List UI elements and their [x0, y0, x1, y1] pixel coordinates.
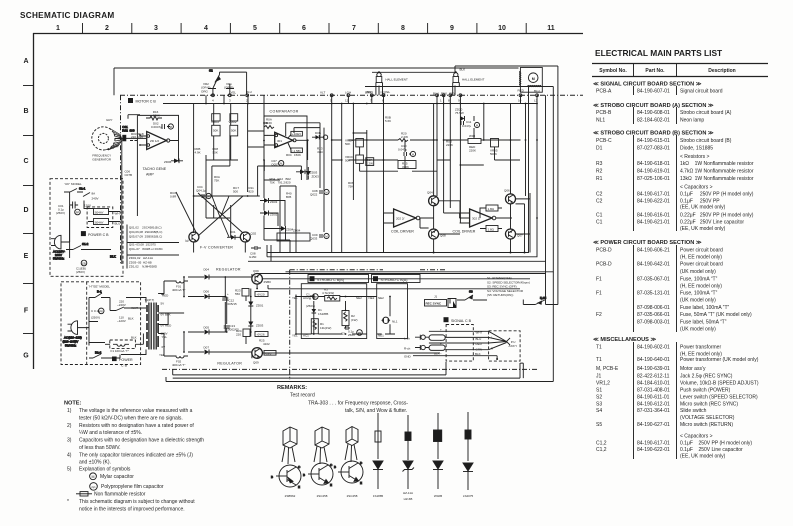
resistor cluster R04 R1 B02: [270, 177, 292, 185]
svg-text:1kΩ 1W Nonflammable resist: 1kΩ 1W Nonflammable resistor: [680, 161, 754, 167]
svg-text:BLK: BLK: [434, 352, 440, 356]
svg-text:220: 220: [236, 333, 241, 337]
svg-text:1S1885: 1S1885: [373, 494, 384, 498]
svg-text:0.1μF 250V PP (H model onl: 0.1μF 250V PP (H model only): [680, 441, 752, 447]
svg-text:The only capacitor toleranc: The only capacitor tolerances indicated …: [79, 452, 193, 458]
svg-text:(S5: RETURN(ON)): (S5: RETURN(ON)): [487, 293, 513, 297]
svg-text:Part No.: Part No.: [645, 68, 665, 74]
svg-text:W03: W03: [469, 134, 476, 138]
svg-text:0.1μF 250V Line capacitor: 0.1μF 250V Line capacitor: [680, 447, 743, 453]
svg-text:Fuse label, 100mA “T”: Fuse label, 100mA “T”: [680, 305, 730, 311]
svg-text:ZD1,02 NJM4558D: ZD1,02 NJM4558D: [129, 265, 158, 269]
frequency generator FG: [92, 118, 122, 162]
svg-text:ASS’Y: ASS’Y: [509, 344, 518, 348]
svg-text:(g): (g): [185, 239, 189, 243]
svg-text:82-184-602-01: 82-184-602-01: [637, 118, 670, 124]
svg-text:0.1μF 250V PP (H model on: 0.1μF 250V PP (H model only): [680, 192, 754, 198]
svg-text:F2: F2: [596, 312, 602, 318]
trimmer plate 1: [212, 114, 220, 121]
wire coil driver cross links: [384, 204, 525, 253]
svg-text:84-190-622-01: 84-190-622-01: [637, 199, 670, 205]
svg-text:75.5W: 75.5W: [455, 111, 464, 115]
svg-text:¼W and a tolerance of ±5%.: ¼W and a tolerance of ±5%.: [79, 430, 142, 436]
UK model dashed box: [50, 179, 123, 277]
svg-text:Push switch (POWER): Push switch (POWER): [680, 388, 731, 394]
resistor RC7 500: [233, 186, 239, 194]
svg-text:R02: R02: [122, 128, 128, 132]
svg-text:ZD 1/2: ZD 1/2: [150, 139, 159, 143]
svg-text:LS2075: LS2075: [463, 494, 474, 498]
svg-text:87-031-364-01: 87-031-364-01: [637, 408, 670, 414]
svg-text:Mylar capacitor: Mylar capacitor: [100, 474, 134, 480]
svg-text:E: E: [360, 481, 362, 485]
capacitor C3 strobo: [341, 326, 362, 337]
wire mid verticals (motor board): [194, 104, 526, 253]
VR1 speed adjust: [224, 82, 237, 95]
regulator label bottom: [217, 361, 242, 365]
power board boundary bottom (dash-dot): [162, 368, 537, 370]
svg-text:84-190-608-01: 84-190-608-01: [637, 110, 670, 116]
svg-text:87-035-067-01: 87-035-067-01: [637, 277, 670, 283]
svg-text:400mA“T”: 400mA“T”: [172, 363, 185, 367]
svg-text:Power transformer (UK model on: Power transformer (UK model only): [680, 357, 759, 363]
svg-text:400mA“T”: 400mA“T”: [172, 288, 185, 292]
svg-text:M, PCB-E: M, PCB-E: [596, 366, 619, 372]
svg-text:~240V: ~240V: [117, 303, 126, 307]
svg-text:2): 2): [67, 423, 72, 429]
resistor R11 820: [249, 186, 255, 194]
VR2 speed adjust: [201, 82, 216, 95]
svg-text:Fuse, 50mA “T” (UK model only): Fuse, 50mA “T” (UK model only): [680, 312, 752, 318]
svg-text:C1: C1: [306, 293, 310, 297]
svg-text:Description: Description: [708, 68, 736, 74]
svg-text:D06: D06: [204, 290, 210, 294]
strobo C B(A) label: [372, 275, 421, 283]
svg-text:POWER C B: POWER C B: [88, 233, 109, 237]
svg-text:This schematic diagram is: This schematic diagram is subject to cha…: [79, 499, 195, 505]
svg-text:5.6K: 5.6K: [385, 119, 391, 123]
resistor R0A 75K: [214, 175, 220, 183]
svg-text:84-190-617-01: 84-190-617-01: [637, 192, 670, 198]
svg-text:F1: F1: [596, 277, 602, 283]
zener ZD04 box mid: [277, 229, 310, 242]
parts labels Q0A C07B: [125, 170, 133, 178]
svg-text:BLK: BLK: [128, 317, 134, 321]
svg-text:notice in the interests of imp: notice in the interests of improved perf…: [79, 506, 185, 512]
svg-text:(250V): (250V): [76, 270, 85, 274]
svg-text:M: M: [412, 153, 414, 157]
svg-text:50/60Hz: 50/60Hz: [53, 257, 65, 261]
zener ZD03c: [306, 167, 319, 180]
svg-text:84-190-602-01: 84-190-602-01: [637, 345, 670, 351]
svg-text:Explanation of symbols: Explanation of symbols: [79, 466, 131, 472]
diode W02B: [433, 413, 443, 489]
F-V converter label: [200, 246, 233, 250]
wire fv to regulator links: [194, 160, 307, 253]
svg-text:220: 220: [131, 135, 136, 139]
wire vertical buses from boundary: [206, 86, 537, 181]
AC plug (UK): [51, 206, 70, 261]
svg-text:5: 5: [253, 25, 257, 32]
svg-text:0.047μ: 0.047μ: [398, 148, 408, 152]
svg-text:13kΩ 1W Nonflammable resisto: 13kΩ 1W Nonflammable resistor: [680, 176, 754, 182]
svg-text:(1W): (1W): [351, 318, 358, 322]
svg-text:8A: 8A: [92, 192, 96, 196]
svg-text:Power circuit board: Power circuit board: [680, 262, 723, 268]
svg-text:C1: C1: [596, 219, 603, 225]
svg-text:E: E: [330, 483, 332, 487]
voltage selector S4 (UK): [83, 192, 121, 228]
resistor R23 550: [235, 289, 249, 297]
svg-text:M: M: [325, 191, 327, 195]
resistor R23b 47: [317, 147, 323, 155]
diode LS2075: [463, 412, 473, 490]
svg-text:Strobo circuit board (A): Strobo circuit board (A): [680, 110, 732, 116]
motor M: [518, 68, 543, 93]
resistor R2 strobo: [342, 311, 358, 326]
svg-text:Signal circuit board: Signal circuit board: [680, 89, 723, 95]
svg-text:T1: T1: [596, 357, 602, 363]
svg-text:S2: S2: [596, 395, 602, 401]
svg-text:Q05,07,09 2SB562(B,C): Q05,07,09 2SB562(B,C): [129, 235, 162, 239]
svg-text:WHT: WHT: [112, 145, 119, 149]
svg-text:HZ-6B: HZ-6B: [404, 497, 413, 501]
resistor W03 220K: [468, 134, 481, 153]
AC plug (EE): [63, 321, 90, 348]
svg-text:87-031-408-01: 87-031-408-01: [637, 388, 670, 394]
diode D05: [188, 326, 221, 335]
svg-text:(H, EE model only): (H, EE model only): [680, 255, 722, 261]
svg-text:G150: G150: [249, 255, 257, 259]
svg-text:820: 820: [249, 190, 254, 194]
svg-text:AMP: AMP: [146, 173, 154, 177]
svg-text:10: 10: [518, 99, 522, 103]
svg-text:PP: PP: [91, 485, 95, 489]
input resistors R02 R03: [128, 115, 144, 141]
svg-text:Q01,02 2SC4581(B,C): Q01,02 2SC4581(B,C): [129, 226, 162, 230]
svg-text:4: 4: [212, 99, 214, 103]
wire right risers to lower section: [546, 261, 554, 381]
svg-text:2: 2: [105, 25, 109, 32]
svg-text:(UK model only): (UK model only): [680, 269, 716, 275]
svg-text:202 2/: 202 2/: [396, 217, 405, 221]
svg-text:75K: 75K: [270, 181, 275, 185]
switch S1-2 (UK): [66, 242, 116, 259]
svg-text:Fuse label, 50mA “T”: Fuse label, 50mA “T”: [680, 320, 727, 326]
transistor Q06: [504, 189, 516, 204]
capacitor C07: [271, 159, 284, 167]
svg-text:-0V26: -0V26: [257, 333, 265, 337]
wire signal links: [473, 331, 488, 355]
svg-text:REGULATOR: REGULATOR: [217, 361, 242, 365]
svg-text:Power circuit board: Power circuit board: [680, 248, 723, 254]
capacitor C08 mid: [310, 189, 329, 197]
svg-text:1: 1: [440, 99, 442, 103]
svg-text:REC SYNC: REC SYNC: [426, 302, 442, 306]
svg-text:(EE, UK model only): (EE, UK model only): [680, 454, 726, 460]
voltage label +10EV: [288, 131, 302, 138]
svg-text:C: C: [298, 465, 301, 469]
svg-text:HZ-11A: HZ-11A: [403, 491, 413, 495]
connector pin numbers: [212, 99, 538, 103]
svg-text:B: B: [23, 108, 28, 115]
resistor R04 150K: [286, 153, 301, 157]
svg-text:Q04,1μ: Q04,1μ: [196, 189, 206, 193]
op-amp comparator 301: [268, 132, 309, 147]
svg-text:50K: 50K: [231, 129, 236, 133]
svg-text:R: R: [491, 347, 494, 351]
regulator label top: [216, 268, 241, 272]
svg-text:Q09: Q09: [253, 269, 259, 273]
row ticks: [23, 86, 33, 334]
tacho gene amp label: [143, 167, 167, 177]
svg-text:5): 5): [67, 466, 72, 472]
svg-text:3: 3: [154, 25, 158, 32]
op-amp coil driver 1: [384, 209, 434, 234]
svg-text:ORG: ORG: [201, 90, 209, 94]
svg-text:−: −: [440, 351, 442, 355]
strobo C B(B) label: [308, 275, 369, 283]
svg-text:-6V20: -6V20: [257, 293, 265, 297]
wire coil driver links: [434, 104, 530, 253]
svg-text:R2: R2: [596, 169, 603, 175]
terminal AC1: [292, 334, 309, 338]
voltage label -6020: [255, 292, 268, 297]
fuse F1 box (EE): [105, 334, 143, 354]
trimmer plate 2: [230, 114, 238, 121]
strobo boundary dash-dot: [290, 270, 445, 380]
svg-text:J1: J1: [596, 374, 602, 380]
svg-text:84-190-627-01: 84-190-627-01: [637, 422, 670, 428]
svg-text:VLT: VLT: [320, 91, 325, 95]
svg-text:YEL: YEL: [162, 335, 168, 339]
switch S3 rec sync: [457, 290, 487, 301]
wire nested frame bottoms: [248, 87, 553, 272]
svg-text:REMARKS:: REMARKS:: [277, 385, 307, 391]
transistor symbol 2SB562 (PNP): [271, 465, 301, 489]
svg-text:VR1,2: VR1,2: [596, 381, 610, 387]
motor board boundary (dash-dot): [120, 94, 583, 96]
svg-text:Fuse, 100mA “T”: Fuse, 100mA “T”: [680, 291, 718, 297]
svg-text:Q04: Q04: [427, 191, 433, 195]
svg-text:Neon lamp: Neon lamp: [680, 118, 704, 124]
svg-text:LGH: LGH: [345, 91, 351, 95]
svg-text:Volume, 10kΩ-B (SPEED ADJUST): Volume, 10kΩ-B (SPEED ADJUST): [680, 381, 759, 387]
jack J1 REC SYNC: [425, 295, 457, 308]
diode D06: [188, 290, 221, 300]
svg-text:~120V: ~120V: [117, 319, 126, 323]
svg-text:≪ POWER CIRCUIT BOARD SECTION: ≪ POWER CIRCUIT BOARD SECTION ≫: [593, 240, 702, 246]
terminal AC2: [292, 296, 309, 300]
svg-text:4: 4: [204, 25, 208, 32]
wire diagonals (cross-coupling): [176, 135, 260, 237]
svg-text:RED: RED: [476, 342, 483, 346]
svg-text:C 0.1μ: C 0.1μ: [91, 309, 100, 313]
svg-text:C1,2: C1,2: [596, 441, 607, 447]
svg-text:of less than 50WV.: of less than 50WV.: [79, 445, 121, 451]
svg-text:B: B: [303, 473, 305, 477]
svg-text:COMPARATOR: COMPARATOR: [270, 110, 299, 114]
svg-text:STROBO C B(A): STROBO C B(A): [381, 278, 408, 282]
signal wire labels: [434, 328, 483, 356]
diode 1S1885: [373, 413, 383, 489]
svg-text:PCB-D: PCB-D: [596, 262, 612, 268]
svg-text:ZD01: ZD01: [256, 304, 264, 308]
zener ZD03: [296, 170, 318, 175]
svg-text:820: 820: [286, 181, 291, 185]
svg-text:84-190-618-01: 84-190-618-01: [637, 161, 670, 167]
svg-text:BLK: BLK: [131, 336, 137, 340]
svg-text:B-1: B-1: [97, 290, 102, 294]
zener ZD03b: [248, 317, 263, 332]
svg-text:RED: RED: [162, 294, 169, 298]
resistor R16 270k feedback: [146, 110, 162, 120]
EE model dashed box: [61, 282, 141, 365]
input terminal L-ch: [404, 331, 446, 340]
svg-text:84-190-621-01: 84-190-621-01: [637, 219, 670, 225]
svg-text:84-190-617-01: 84-190-617-01: [637, 441, 670, 447]
terminal NE1: [378, 334, 384, 338]
svg-text:87-035-066-01: 87-035-066-01: [637, 312, 670, 318]
svg-text:GRY: GRY: [106, 118, 112, 122]
terminal GND: [404, 355, 446, 359]
svg-text:NL1: NL1: [392, 320, 398, 324]
svg-text:Q09: Q09: [253, 361, 259, 365]
transistor Q07: [506, 229, 524, 239]
resistor R40: [286, 192, 292, 200]
wire top frame: [114, 68, 519, 95]
top ruler line: [33, 33, 583, 35]
svg-text:M: M: [280, 162, 282, 166]
svg-text:0V: 0V: [162, 345, 166, 349]
svg-text:C2: C2: [596, 199, 603, 205]
capacitor C13: [224, 320, 239, 332]
svg-text:TRA-303 . . . for Frequenc: TRA-303 . . . for Frequency response, Cr…: [308, 401, 408, 407]
device type list text: [129, 226, 164, 269]
svg-text:50/60Hz: 50/60Hz: [65, 344, 77, 348]
switch list text: [487, 276, 530, 297]
svg-text:(250V): (250V): [91, 316, 100, 320]
svg-text:3): 3): [67, 438, 72, 444]
capacitor C01 PP (UK): [56, 192, 80, 258]
svg-text:Polypropylene film capacitor: Polypropylene film capacitor: [101, 484, 164, 490]
svg-text:*: *: [67, 499, 69, 505]
svg-text:6: 6: [302, 25, 306, 32]
resistor R0A 5.6K: [264, 118, 274, 129]
zener ZD03 mid: [260, 198, 278, 204]
svg-text:75K: 75K: [214, 179, 219, 183]
svg-text:+10EV: +10EV: [292, 132, 301, 136]
svg-text:NOTE:: NOTE:: [64, 401, 82, 407]
svg-text:5V: 5V: [161, 302, 165, 306]
op-amp ZD1 tacho: [140, 132, 179, 150]
svg-text:2SC458: 2SC458: [317, 494, 328, 498]
svg-text:C1: C1: [596, 213, 603, 219]
capacitor C PP (EE): [91, 308, 104, 319]
svg-text:WHT: WHT: [115, 212, 122, 216]
svg-text:S1: S1: [596, 388, 602, 394]
svg-text:2.2W: 2.2W: [366, 162, 373, 166]
svg-text:220K: 220K: [469, 149, 476, 153]
svg-text:GENERATOR: GENERATOR: [92, 158, 112, 162]
svg-text:M: M: [208, 195, 210, 199]
voltage label -1.5B: [288, 143, 302, 153]
svg-text:500K: 500K: [490, 152, 497, 156]
svg-text:R3: R3: [596, 161, 603, 167]
svg-text:0.22μF 250V Line capacitor: 0.22μF 250V Line capacitor: [680, 219, 744, 225]
zener ZD02 mid: [260, 211, 278, 217]
wire mid horizontals: [332, 116, 521, 171]
diode D04: [188, 268, 229, 280]
capacitor C10 0.047u M: [398, 144, 416, 157]
transistor Q10 regulator: [252, 348, 276, 365]
transistor Q09 regulator: [252, 269, 271, 284]
hall element H1: [367, 71, 408, 95]
trimmer VRCD 50K: [345, 155, 363, 163]
svg-text:Motor ass’y: Motor ass’y: [680, 366, 706, 372]
remarks: [277, 385, 408, 414]
svg-text:PCB-B: PCB-B: [596, 110, 612, 116]
resistor R08 50K: [213, 147, 219, 155]
zener diode HZ-11A / HZ-6B: [403, 415, 415, 489]
svg-text:50K: 50K: [213, 151, 218, 155]
resistor RC0: [170, 191, 177, 199]
svg-text:S3: S3: [596, 402, 602, 408]
svg-text:10: 10: [498, 25, 506, 32]
svg-text:84-190-607-01: 84-190-607-01: [637, 89, 670, 95]
svg-text:B: B: [334, 465, 336, 469]
svg-text:302 1/: 302 1/: [472, 217, 481, 221]
svg-text:Q06: Q06: [504, 189, 510, 193]
terminal circles on boundary: [212, 94, 539, 97]
motor board boundary left (dash-dot): [120, 95, 122, 264]
svg-text:PCB-A: PCB-A: [596, 89, 612, 95]
svg-text:C3: C3: [341, 332, 345, 336]
svg-text:1: 1: [56, 25, 60, 32]
transistor package 2SC458 (2): [345, 427, 358, 463]
svg-text:BLU: BLU: [246, 90, 252, 94]
wire strobo internal: [296, 295, 382, 335]
svg-text:GRY: GRY: [449, 92, 455, 96]
svg-text:2.2W: 2.2W: [401, 135, 408, 139]
svg-text:0.22μF 250V PP (H model onl: 0.22μF 250V PP (H model only): [680, 213, 754, 219]
svg-text:84-190-611-01: 84-190-611-01: [637, 395, 670, 401]
svg-text:Strobo circuit board (B): Strobo circuit board (B): [680, 138, 732, 144]
svg-text:MOTOR C B: MOTOR C B: [136, 100, 157, 104]
svg-text:M: M: [170, 125, 172, 129]
svg-text:M: M: [532, 77, 535, 81]
svg-text:PCB-D: PCB-D: [596, 248, 612, 254]
svg-text:4): 4): [67, 452, 72, 458]
trimmer VR05 500K: [490, 139, 499, 157]
power C B label (EE): [112, 357, 133, 368]
svg-text:(EE, UK model only): (EE, UK model only): [680, 205, 726, 211]
wire power rails: [184, 274, 546, 359]
svg-text:270K: 270K: [153, 114, 160, 118]
svg-text:F-V CONVERTER: F-V CONVERTER: [200, 246, 233, 250]
capacitor C04 1u M: [196, 185, 211, 199]
svg-text:BLU: BLU: [534, 89, 540, 93]
transistor Q02 (F-V): [240, 232, 256, 243]
svg-text:4102: 4102: [263, 342, 270, 346]
svg-text:M: M: [325, 235, 327, 239]
svg-text:YEL: YEL: [380, 91, 386, 95]
svg-text:F1: F1: [596, 291, 602, 297]
switch S2 speed selector top: [209, 69, 247, 96]
wire bottom long rails: [161, 281, 553, 382]
svg-text:C07B: C07B: [125, 173, 133, 177]
svg-text:87-027-083-01: 87-027-083-01: [637, 146, 670, 152]
